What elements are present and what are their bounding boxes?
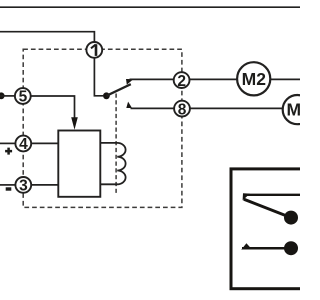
terminal 5 (15, 88, 31, 104)
switch pivot junction (103, 92, 110, 99)
label + (5, 148, 12, 155)
motor M1 (283, 95, 312, 124)
wire terminal 5 to relay block with arrow (31, 96, 75, 118)
svg-text:2: 2 (177, 73, 186, 90)
dashed relay enclosure (23, 49, 182, 207)
inset fixed line top (244, 194, 301, 196)
svg-text:4: 4 (19, 136, 28, 153)
svg-text:M1: M1 (286, 100, 300, 120)
wire terminal 1 to switch pivot (94, 58, 103, 96)
wire left edge to terminal 3 (0, 184, 16, 186)
terminal 1 (86, 42, 102, 58)
inset bottom arrowhead (241, 243, 250, 250)
terminal 8 (174, 101, 190, 117)
wire terminal 8 to motor M1 (190, 107, 283, 109)
inset top arrowhead (243, 193, 250, 200)
inset bottom pivot dot (284, 241, 298, 255)
left bus junction dot (0, 92, 5, 99)
dashed mechanical linkage (115, 94, 117, 195)
wire left edge to terminal 4 (0, 142, 16, 144)
switch common lever (106, 84, 130, 96)
relay block (58, 131, 100, 197)
switch contact arrow to terminal 2 (126, 79, 133, 85)
wire terminal 4 to relay block (31, 142, 58, 144)
wire motor M2 to right edge (270, 78, 300, 80)
relay coil (100, 143, 125, 184)
switch contact arrow to terminal 8 (126, 102, 132, 108)
wire terminal 3 to relay block (31, 184, 58, 186)
detail inset box (231, 169, 311, 289)
wire terminal 2 to motor M2 (190, 78, 238, 80)
wire arrow to terminal 8 (131, 107, 175, 109)
wire arrow to terminal 2 (130, 78, 174, 80)
svg-text:3: 3 (19, 178, 28, 195)
svg-text:8: 8 (178, 101, 187, 118)
terminal 3 (15, 177, 31, 193)
svg-text:M2: M2 (242, 69, 267, 89)
wire top supply bus (0, 6, 300, 8)
terminal 2 (174, 72, 190, 88)
svg-text:5: 5 (19, 89, 28, 106)
wire left edge to terminal 5 (0, 95, 15, 97)
wire left feed to terminal 1 (0, 32, 94, 42)
inset changeover contact lever (244, 199, 291, 217)
terminal 4 (15, 136, 31, 152)
motor M2 (237, 62, 270, 95)
label - (6, 187, 12, 190)
inset changeover pivot dot (284, 211, 298, 225)
inset fixed contact bottom wire (242, 247, 291, 250)
